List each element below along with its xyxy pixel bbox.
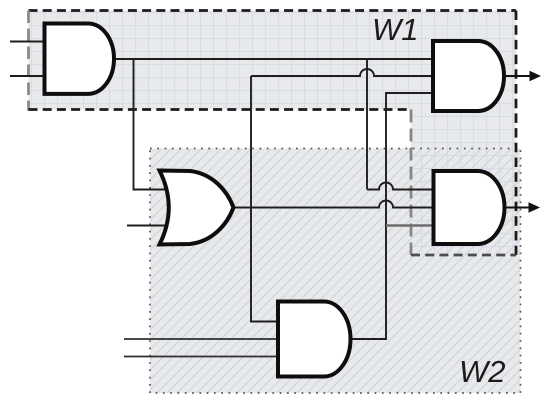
wire: net C horizontal y=76 from V1 to G2 input 2, hop over V3 bbox=[251, 69, 434, 76]
wire: net A branch down at x=367 (V3) to G3 input 1, hop over V2 bbox=[367, 59, 434, 190]
and-gate G2 (top right) bbox=[433, 41, 504, 111]
wire: net B - G4 output riser V2 up to G2 input 3 bbox=[351, 93, 434, 339]
region W1 dashed border: top edge bbox=[29, 9, 517, 12]
svg-text:W2: W2 bbox=[459, 354, 506, 389]
wire: G4 input 2 bbox=[124, 338, 279, 340]
region W1 grid pattern bbox=[29, 11, 517, 256]
wire: net A branch down at x=133.5 to OR input 1 bbox=[134, 59, 177, 190]
region W2 dotted border bbox=[150, 149, 521, 394]
region W1 dashed border: right edge bbox=[515, 11, 518, 256]
wire: G1 input 2 bbox=[10, 75, 46, 77]
and-gate G1 (top left) bbox=[45, 24, 114, 94]
region W2 fill bbox=[150, 149, 521, 394]
output arrow of G2 bbox=[503, 71, 541, 82]
wire: OR output to G3 input 2, hop over V2 bbox=[233, 201, 434, 208]
region W1 dashed border: inner vertical edge (grey) bbox=[410, 110, 413, 256]
and-gate G4 (bottom) bbox=[278, 302, 351, 377]
wire: G1 input 1 bbox=[10, 41, 46, 43]
wire: net C - V1 vertical from (251,76) to (251,321.5) bbox=[251, 76, 279, 322]
region W1 dashed border: bottom right edge bbox=[411, 254, 516, 257]
and-gate G3 (middle right) bbox=[434, 171, 505, 244]
wire: net A - G1 output to G2 input 1 bbox=[112, 58, 434, 60]
region W2 hatch pattern bbox=[150, 149, 521, 394]
region W1 dashed border: strip bottom edge bbox=[29, 108, 412, 111]
wire: OR input 2 bbox=[127, 225, 176, 227]
svg-text:W1: W1 bbox=[372, 12, 419, 47]
wire: G4 input 3 bbox=[124, 356, 279, 358]
region W1 dashed border: left edge (grey) bbox=[27, 11, 30, 111]
wire: grey stub from V2 to G3 input 3 bbox=[386, 224, 436, 227]
or-gate G5 (middle left) bbox=[160, 171, 234, 245]
output arrow of G3 bbox=[505, 202, 540, 213]
region W1 fill bbox=[29, 11, 517, 256]
